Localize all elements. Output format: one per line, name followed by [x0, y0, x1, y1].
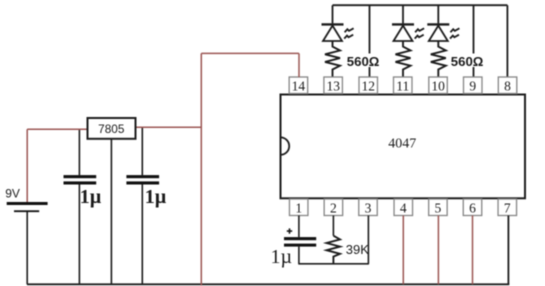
- svg-text:560Ω: 560Ω: [451, 54, 484, 69]
- wire: rail to LED D3: [437, 5, 439, 23]
- IC U1 4047 body: [281, 95, 526, 199]
- wire: pin7 to ground rail: [507, 216, 509, 285]
- svg-text:14: 14: [292, 79, 306, 94]
- pin 13 box: [324, 77, 343, 94]
- wire: red pin4 to rail: [402, 216, 404, 285]
- svg-text:3: 3: [365, 200, 372, 215]
- value label 560ohm for R3: [449, 54, 484, 69]
- resistor R1 560 ohm: [325, 41, 340, 77]
- capacitor C1 1u plates: [64, 175, 97, 184]
- wire: 7805 ground pin: [110, 139, 112, 284]
- svg-text:8: 8: [504, 79, 511, 94]
- pin 5 box: [429, 199, 448, 216]
- svg-text:7: 7: [504, 200, 511, 215]
- LED D1: [322, 24, 354, 41]
- svg-text:9: 9: [469, 79, 476, 94]
- wire: battery + up: [26, 129, 28, 202]
- wire: red pin6 to rail: [472, 216, 474, 285]
- LED D3: [427, 24, 459, 41]
- wire: ground bottom rail: [27, 283, 509, 285]
- regulator U2 7805 box: [88, 118, 136, 139]
- wire: C1 bottom lead: [78, 184, 80, 284]
- svg-text:1µ: 1µ: [271, 246, 293, 268]
- wire: C3 bottom to node: [298, 247, 300, 264]
- svg-text:39K: 39K: [346, 242, 369, 257]
- wire: rail to LED D2: [402, 5, 404, 23]
- wire: pin8 to top rail: [506, 5, 508, 77]
- battery BT1 9V plates: [7, 202, 48, 212]
- wire: C2 top lead: [141, 127, 143, 175]
- pin 1 box: [289, 199, 308, 216]
- resistor R3 560 ohm: [431, 41, 446, 77]
- svg-text:11: 11: [396, 79, 409, 94]
- svg-text:4047: 4047: [388, 137, 416, 152]
- svg-text:1µ: 1µ: [80, 186, 102, 208]
- capacitor C3 1u electrolytic plates: [284, 237, 316, 247]
- wire: C2 bottom lead: [141, 184, 143, 284]
- svg-text:5: 5: [435, 200, 442, 215]
- wire: red drop into pin14: [298, 53, 300, 77]
- wire: battery to 7805 input: [27, 128, 87, 130]
- capacitor C2 1u plates: [126, 175, 159, 184]
- pin 8 box: [498, 77, 517, 94]
- pin 4 box: [394, 199, 413, 216]
- pin 2 box: [324, 199, 343, 216]
- wire: red pin5 to rail: [437, 216, 439, 285]
- wire: battery negative to rail: [26, 212, 28, 284]
- wire: rail to LED D1: [332, 5, 334, 23]
- wire: pin3 down: [367, 216, 369, 264]
- svg-text:7805: 7805: [98, 122, 125, 136]
- LED D2: [392, 24, 424, 41]
- wire: +9V top rail: [333, 4, 508, 6]
- C3 polarity plus sign: [287, 228, 292, 233]
- wire: bottom junction node pins 1-2-3: [298, 263, 369, 265]
- svg-text:13: 13: [326, 79, 340, 94]
- pin 3 box: [359, 199, 378, 216]
- svg-text:560Ω: 560Ω: [347, 54, 380, 69]
- pin 7 box: [498, 199, 517, 216]
- svg-text:12: 12: [362, 79, 376, 94]
- IC U1 notch: [281, 137, 290, 154]
- pin 6 box: [463, 199, 482, 216]
- wire: C1 top lead: [78, 129, 80, 175]
- wire: 7805 output to vertical bus: [136, 126, 203, 128]
- resistor R2 560 ohm: [396, 41, 411, 77]
- svg-text:6: 6: [469, 200, 476, 215]
- value label 560ohm for R1: [345, 54, 380, 69]
- wire: pin2 to resistor R4: [332, 216, 334, 236]
- resistor R4 39K: [327, 236, 340, 264]
- wire: pin1 to capacitor C3: [298, 216, 300, 238]
- svg-text:10: 10: [431, 79, 445, 94]
- svg-text:1: 1: [295, 200, 302, 215]
- svg-text:1µ: 1µ: [145, 186, 167, 208]
- wire: top red horizontal to pin14: [201, 52, 299, 54]
- svg-text:9V: 9V: [5, 187, 20, 201]
- wire: pin9 to top rail: [473, 5, 475, 77]
- wire: vertical red bus: [200, 53, 202, 285]
- red wires (positive supply): [27, 53, 472, 285]
- wire: pin12 to top rail: [369, 5, 371, 77]
- svg-text:4: 4: [400, 200, 407, 215]
- pin 10 box: [429, 77, 448, 94]
- pin 9 box: [464, 77, 483, 94]
- pin 11 box: [394, 77, 413, 94]
- svg-text:2: 2: [330, 200, 337, 215]
- pin 12 box: [359, 77, 378, 94]
- pin 14 box: [289, 77, 308, 94]
